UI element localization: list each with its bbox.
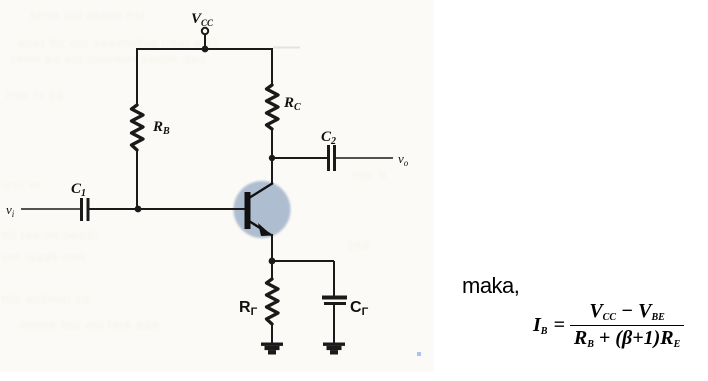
- node base junction: [135, 206, 142, 213]
- resistor RC: [267, 85, 279, 129]
- svg-text:vi: vi: [6, 202, 15, 219]
- capacitor C2: [327, 145, 330, 171]
- wire emitter rail: [272, 260, 334, 262]
- node emitter junction: [269, 258, 276, 265]
- svg-text:RΓ: RΓ: [239, 299, 258, 318]
- wire RE top: [271, 261, 273, 279]
- svg-text:C2: C2: [321, 129, 336, 147]
- ground at CE: [323, 343, 345, 355]
- wire RC top: [271, 48, 273, 85]
- svg-text:VCC: VCC: [191, 11, 214, 28]
- resistor RB: [132, 105, 144, 150]
- blue artifact speck: [417, 352, 421, 356]
- wire RE bottom: [271, 324, 273, 343]
- text maka: [462, 273, 519, 299]
- transistor Q1 emitter arrow: [258, 223, 272, 236]
- wire artifact right of rail corner: [273, 47, 300, 49]
- formula IB: [533, 300, 684, 350]
- svg-text:vo: vo: [398, 151, 409, 168]
- wire top rail: [137, 48, 272, 50]
- capacitor CE top plate: [322, 296, 347, 300]
- capacitor CE bottom plate: [324, 302, 346, 305]
- scan background tint: [0, 0, 434, 372]
- wire RB top: [136, 48, 138, 105]
- wire CE top: [333, 261, 335, 296]
- wire C2 left: [272, 157, 327, 159]
- transistor Q1 collector lead: [249, 183, 273, 198]
- resistor RE: [267, 279, 279, 324]
- wire RC bottom (collector feed): [271, 129, 273, 184]
- wire C2 right to output: [336, 157, 393, 159]
- wire CE bottom: [333, 305, 335, 343]
- ground at RE: [261, 343, 283, 355]
- svg-text:C1: C1: [71, 181, 86, 199]
- svg-text:RB: RB: [152, 119, 170, 137]
- wire VCC stem: [204, 35, 206, 50]
- wire emitter down: [271, 234, 273, 261]
- wire RB bottom: [136, 150, 138, 209]
- node VCC terminal: [202, 28, 208, 34]
- transistor Q1 shaded circle: [234, 181, 291, 238]
- capacitor C1: [80, 198, 83, 221]
- transistor Q1 base bar: [245, 192, 251, 229]
- faint bleed-through ghost text: [30, 8, 145, 22]
- node collector junction: [269, 155, 275, 161]
- transistor Q1 emitter lead: [249, 221, 271, 235]
- wire base: [90, 208, 246, 210]
- svg-text:CΓ: CΓ: [350, 299, 369, 318]
- node junction at VCC rail: [202, 46, 209, 53]
- svg-text:RC: RC: [283, 95, 301, 113]
- wire input vi: [21, 208, 80, 210]
